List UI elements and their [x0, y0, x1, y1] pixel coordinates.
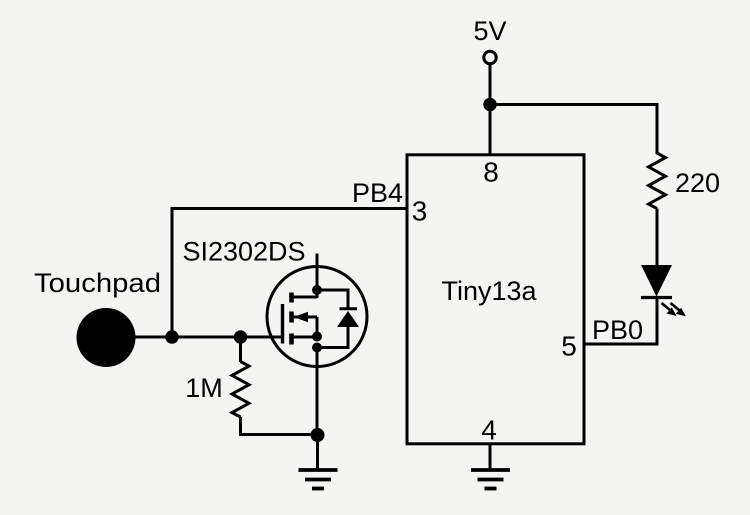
pin number 8: [483, 157, 499, 188]
svg-text:8: 8: [483, 157, 499, 188]
svg-text:5V: 5V: [473, 16, 506, 46]
wire resistor 1M to ground junction: [241, 417, 318, 435]
wire touchpad to gate: [133, 336, 284, 339]
svg-text:Tiny13a: Tiny13a: [441, 276, 537, 306]
pin number 5: [561, 331, 577, 362]
svg-text:Touchpad: Touchpad: [34, 268, 161, 298]
wire pin 4 to ground symbol: [489, 444, 492, 470]
wire 5V junction to pin 8: [489, 105, 492, 157]
wire source to ground junction: [316, 348, 319, 437]
transistor Q1 drain stub: [316, 254, 319, 299]
svg-text:1M: 1M: [185, 373, 223, 403]
transistor Q1 channel bottom bar: [289, 334, 294, 345]
wire resistor to LED: [656, 209, 659, 267]
transistor Q1 body diode branch: [317, 290, 348, 309]
junction gate/1M node B: [234, 330, 247, 343]
transistor Q1 drain connector: [290, 296, 317, 299]
resistor 220: [649, 152, 666, 209]
junction touchpad node A: [165, 330, 178, 343]
wire junction to ground symbol: [316, 435, 319, 470]
transistor Q1 source junction dot: [312, 332, 322, 342]
transistor Q1 body connector: [291, 336, 317, 339]
wire node B to resistor 1M: [239, 337, 242, 362]
svg-text:220: 220: [675, 168, 720, 198]
pin number 4: [481, 415, 497, 446]
LED light emission arrows: [662, 303, 686, 316]
LED cathode bar: [641, 296, 672, 299]
transistor Q1 body diode anode return: [317, 327, 348, 348]
wire LED cathode to pin 5: [584, 298, 657, 345]
ground symbol left: [299, 470, 338, 489]
transistor Q1 diode junction dot: [312, 343, 322, 353]
svg-text:5: 5: [561, 331, 577, 362]
transistor Q1 source connector down: [316, 317, 319, 337]
ground symbol under IC: [471, 470, 510, 489]
svg-text:4: 4: [481, 415, 497, 446]
wire PB4 from gate node up and to pin 3: [172, 209, 406, 338]
pin number 3: [412, 196, 428, 227]
wire 5V junction to resistor branch (top right): [490, 105, 657, 154]
svg-text:SI2302DS: SI2302DS: [182, 237, 305, 267]
touchpad electrode (filled circle): [77, 308, 136, 367]
value label 220: [675, 168, 720, 198]
svg-text:3: 3: [412, 196, 428, 227]
transistor Q1 gate bar: [281, 304, 284, 344]
value label 1M: [185, 373, 223, 403]
node 5V label: [473, 16, 506, 46]
IC name Tiny13a: [441, 276, 537, 306]
resistor 1M: [232, 362, 249, 418]
LED D1 triangle: [641, 265, 672, 297]
transistor Q1 channel top bar: [289, 293, 294, 303]
transistor Q1 source arrow line: [293, 312, 317, 322]
wire 5V terminal to junction: [489, 64, 492, 105]
5V supply terminal (open circle): [484, 51, 496, 63]
transistor Q1 body diode triangle: [337, 311, 359, 327]
transistor Q1 drain dot: [312, 285, 322, 295]
label Touchpad: [34, 268, 161, 298]
transistor Q1 MOSFET body circle: [267, 267, 367, 367]
transistor Q1 channel middle bar: [289, 312, 294, 323]
net label PB4: [352, 178, 403, 208]
IC U1 Tiny13a body: [407, 155, 584, 444]
transistor Q1 body diode cathode bar: [340, 307, 358, 310]
junction ground node: [311, 428, 325, 442]
svg-text:PB0: PB0: [592, 315, 643, 345]
transistor label SI2302DS: [182, 237, 305, 267]
net label PB0: [592, 315, 643, 345]
svg-text:PB4: PB4: [352, 178, 403, 208]
junction 5V node: [483, 98, 496, 111]
